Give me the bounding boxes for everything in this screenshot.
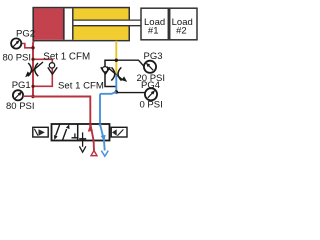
valve V1 blocked port T1: [72, 133, 79, 137]
svg-text:80 PSI: 80 PSI: [6, 101, 35, 112]
exhaust arrow (blue, below valve): [101, 151, 108, 157]
pressure gauge PG4: [140, 80, 163, 111]
svg-text:0 PSI: 0 PSI: [140, 100, 163, 111]
wire blue: FC2 down to junction: [115, 75, 117, 93]
exhaust arrow (black, below valve): [79, 146, 86, 152]
wire yellow: cylinder rod port down to FC2: [115, 41, 117, 75]
check valve CV2 (ball and seat on FC2 bypass): [101, 67, 110, 74]
check valve CV1 (ball and seat on FC1 bypass): [48, 63, 57, 75]
wire blue: junction left and down to valve: [100, 92, 116, 124]
svg-text:#2: #2: [176, 26, 187, 37]
wire red: flow control FC1 bypass loop: [33, 59, 52, 86]
pressure gauge PG2: [3, 29, 36, 64]
svg-text:80 PSI: 80 PSI: [3, 53, 32, 64]
wire black: FC2 top to PG3: [116, 60, 143, 66]
svg-text:Set 1 CFM: Set 1 CFM: [43, 51, 90, 62]
node FC1 loop top junction: [31, 58, 34, 61]
load box Load #2: [170, 8, 197, 40]
wire blue: flow path through valve right cell: [100, 124, 105, 150]
supply triangle P (red): [91, 151, 97, 156]
red flow arrowhead (up): [88, 125, 93, 132]
wire red: flow path through valve right cell: [90, 124, 94, 151]
wire red: PG1 junction to valve, horizontal + drop: [33, 97, 90, 125]
blue flow arrowhead (down): [101, 135, 106, 141]
wire red: PG1 stub: [23, 95, 33, 97]
node FC2 top junction: [115, 59, 118, 62]
pilot actuator left: [33, 127, 48, 137]
wire red: PG2 elbow: [21, 44, 33, 48]
flow control valve FC1 (needle valve, black symbol): [25, 62, 43, 77]
wire black: FC2 bypass loop: [105, 60, 116, 86]
svg-text:PG3: PG3: [144, 51, 163, 62]
wire black: junction to PG4: [116, 92, 145, 94]
svg-text:PG2: PG2: [16, 29, 35, 40]
svg-text:PG4: PG4: [141, 80, 160, 91]
svg-text:PG1: PG1: [12, 80, 31, 91]
cylinder C1 piston rod: [74, 20, 141, 26]
cylinder C1 piston plate: [72, 8, 74, 39]
cylinder C1 piston red cap-side fill: [34, 8, 64, 39]
node PG4 tee junction: [115, 90, 119, 94]
svg-text:Set 1 CFM: Set 1 CFM: [58, 80, 104, 91]
node PG1 tee junction: [31, 95, 34, 98]
valve V1 5/2 directional body: [52, 124, 110, 141]
node FC1 loop bottom junction: [31, 85, 34, 88]
svg-text:#1: #1: [148, 26, 159, 37]
cylinder C1 rod-side yellow fill: [74, 8, 129, 39]
valve V1 left cell arrow down: [54, 124, 60, 140]
valve V1 left cell arrow up: [63, 124, 70, 140]
node valve blue port entry: [99, 123, 102, 126]
pressure gauge PG3: [137, 51, 166, 84]
flow control valve FC2 (needle valve, black symbol): [107, 67, 127, 82]
cylinder C1 body: [33, 8, 129, 41]
node valve red port entry: [89, 123, 92, 126]
wire red: cylinder cap port down to PG1 junction: [32, 41, 35, 97]
load box Load #1: [141, 8, 168, 40]
pressure gauge PG1: [6, 80, 35, 112]
valve V1 exhaust port T2 with stem: [79, 132, 86, 146]
node PG2 tee junction: [31, 46, 34, 49]
pilot actuator right: [111, 127, 127, 137]
